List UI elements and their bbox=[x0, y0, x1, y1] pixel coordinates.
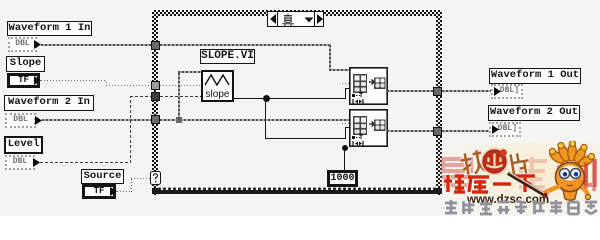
wire Waveform 2 inside horizontal bbox=[160, 119, 349, 121]
junction Waveform 2 branch bbox=[176, 117, 182, 123]
terminal Waveform 1 Out DBL bbox=[491, 84, 523, 99]
wire slope into trigger 2 bbox=[345, 127, 350, 128]
watermark red brand character wei bbox=[443, 172, 466, 194]
svg-text:slope: slope bbox=[206, 89, 230, 100]
wire Source dotted to selector tunnel bbox=[131, 178, 151, 179]
subVI trigger 2 icon bbox=[349, 109, 388, 147]
wire Level vertical riser bbox=[130, 96, 131, 163]
case selector box bbox=[267, 11, 324, 27]
wire Slope dotted elbow bbox=[106, 80, 107, 86]
terminal Slope TF bbox=[7, 73, 40, 88]
watermark red strokes right of mascot bbox=[583, 158, 600, 192]
wire 1000 vertical bbox=[344, 145, 345, 171]
wire Waveform 2 branch vertical bbox=[178, 71, 180, 119]
terminal arrow Source TF bbox=[109, 186, 118, 197]
terminal arrow Waveform 1 In bbox=[33, 39, 42, 50]
terminal Level DBL bbox=[5, 155, 35, 170]
watermark slogan gray characters bbox=[443, 199, 600, 216]
label Waveform 2 Out bbox=[488, 105, 580, 121]
wire slope branch horizontal bbox=[265, 138, 346, 139]
case selector dropdown triangle bbox=[304, 17, 314, 23]
wire slope into trigger 1 bbox=[345, 88, 350, 89]
wire Waveform 1 In to tunnel bbox=[41, 44, 152, 46]
wire Level to tunnel bbox=[130, 96, 152, 97]
tunnel Waveform 2 bbox=[151, 115, 160, 124]
label Waveform 2 In bbox=[4, 95, 94, 111]
case structure bottom border base bbox=[152, 190, 442, 194]
wire Slope dotted segment 2 bbox=[106, 85, 152, 86]
terminal arrow Waveform 2 In bbox=[34, 115, 43, 126]
junction dot 1000 bbox=[342, 145, 348, 151]
wire Waveform 2 In to tunnel bbox=[42, 119, 152, 121]
left arm bbox=[541, 186, 560, 194]
constant 1000 bbox=[327, 170, 358, 187]
case selector left arrow bbox=[268, 12, 278, 26]
watermark faint red character 1 bbox=[440, 155, 474, 193]
right arm bbox=[581, 187, 588, 196]
wire slope branch down bbox=[265, 98, 266, 139]
tunnel output 2 bbox=[433, 127, 442, 136]
wire Waveform 1 inside horizontal bbox=[160, 44, 331, 46]
wire Level horizontal from terminal bbox=[40, 162, 131, 163]
wire slope jog up to trigger 1 bbox=[345, 88, 346, 99]
subVI trigger 1 icon bbox=[349, 67, 388, 105]
wire slope jog up to trigger 2 bbox=[345, 127, 346, 139]
watermark magnifier handle bbox=[505, 170, 550, 200]
terminal Waveform 2 In DBL bbox=[5, 113, 36, 128]
tunnel Level bbox=[151, 92, 160, 101]
terminal arrow Waveform 1 Out bbox=[493, 86, 502, 97]
terminal arrow Level bbox=[32, 157, 41, 168]
body bbox=[563, 190, 577, 200]
label Waveform 1 In bbox=[7, 21, 92, 36]
case structure right border bbox=[436, 10, 442, 195]
tunnel Waveform 1 In bbox=[151, 41, 160, 50]
wire trigger 2 output inside bbox=[387, 130, 434, 132]
wire Waveform 2 branch into slope icon bbox=[178, 71, 202, 73]
case selector glyph zhen bbox=[281, 13, 295, 26]
wire Slope inside dotted bbox=[160, 85, 201, 86]
tunnel Slope bbox=[151, 81, 160, 90]
case selector tunnel question mark bbox=[150, 171, 161, 185]
label Source bbox=[81, 169, 124, 184]
watermark pian character (chip) bbox=[507, 151, 531, 179]
wire Source dotted vertical bbox=[131, 178, 132, 192]
crown petals bbox=[548, 143, 595, 169]
watermark mascot bbox=[518, 141, 596, 204]
junction dot slope output bbox=[263, 95, 270, 102]
watermark red brand character ku bbox=[467, 172, 490, 194]
wire Level inside bbox=[160, 96, 201, 97]
watermark red character xun bbox=[578, 155, 600, 191]
watermark url www.dzsc.com bbox=[467, 192, 555, 206]
watermark red character pei bbox=[556, 153, 586, 189]
label SLOPE.VI bbox=[200, 49, 255, 64]
terminal arrow Slope TF bbox=[33, 75, 42, 86]
tunnel output 1 bbox=[433, 87, 442, 96]
terminal Source TF bbox=[82, 184, 116, 199]
wire Waveform 1 inside vertical bbox=[329, 44, 331, 71]
wire trigger 2 output outside bbox=[442, 130, 490, 132]
subVI SLOPE.VI icon bbox=[201, 70, 234, 102]
case structure top border bbox=[152, 10, 442, 16]
terminal Waveform 2 Out DBL bbox=[489, 122, 521, 137]
dotted stub into trigger 2 bbox=[342, 123, 350, 124]
watermark chip badge circle bbox=[480, 147, 509, 176]
dotted stub into trigger 1 bbox=[342, 83, 350, 84]
watermark zhao character (find) bbox=[459, 149, 485, 177]
wire Slope dotted segment 1 bbox=[41, 80, 107, 81]
case structure bottom border bbox=[152, 186, 442, 191]
wire trigger 1 output inside bbox=[387, 90, 434, 92]
watermark background glow bbox=[440, 142, 600, 216]
case structure left border bbox=[152, 10, 158, 195]
label Waveform 1 Out bbox=[489, 68, 581, 84]
wire Source dotted horizontal bbox=[117, 191, 132, 192]
label Slope bbox=[6, 56, 45, 72]
watermark red brand character yi bbox=[491, 172, 513, 194]
wire slope output bbox=[234, 98, 346, 99]
terminal Waveform 1 In DBL bbox=[8, 37, 37, 52]
head bbox=[556, 163, 585, 192]
wire trigger 1 output outside bbox=[442, 90, 492, 92]
case selector divider right bbox=[314, 12, 315, 26]
watermark red brand character xia bbox=[514, 172, 536, 194]
case selector right arrow bbox=[315, 12, 325, 26]
label Level bbox=[4, 136, 43, 154]
case selector divider left bbox=[277, 12, 278, 26]
wire Waveform 1 into trigger 1 bbox=[329, 69, 350, 71]
terminal arrow Waveform 2 Out bbox=[491, 124, 500, 135]
watermark faint red character 2 bbox=[515, 155, 549, 191]
